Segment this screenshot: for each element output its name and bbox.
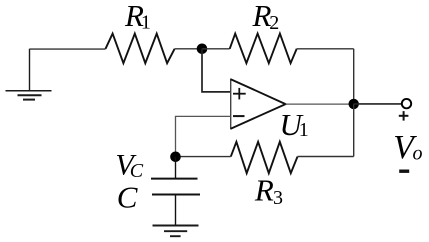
svg-text:1: 1 [141, 12, 151, 34]
capacitor C [151, 157, 200, 226]
wire: R3 left end to node C [176, 156, 231, 158]
svg-text:2: 2 [269, 12, 279, 34]
wire: corner to R3 right end [298, 156, 354, 158]
plus sign at output [399, 111, 409, 121]
output terminal (open circle) [402, 99, 411, 108]
svg-text:1: 1 [299, 119, 309, 141]
svg-text:R: R [254, 173, 274, 208]
wire: node B to output terminal [354, 103, 402, 105]
wire: op-amp output to node B [286, 103, 354, 105]
ground GND2 (below capacitor) [153, 226, 199, 237]
wire: R1 to node A [175, 48, 202, 50]
node B (output junction) [349, 99, 359, 109]
svg-text:o: o [413, 143, 423, 165]
wire: node A down to op-amp non-inverting input [202, 49, 231, 92]
svg-text:3: 3 [273, 187, 283, 209]
op-amp U1 plus input marker [233, 88, 246, 100]
op-amp U1 [230, 79, 232, 130]
wire: top-right corner down to node B [353, 49, 355, 104]
resistor R1 [106, 34, 175, 64]
wire: op-amp inverting input to node C [176, 116, 231, 156]
node C (VC node) [170, 152, 181, 163]
wire: node A to R2 [202, 48, 230, 50]
resistor R3 [231, 142, 298, 173]
op-amp U1 minus input marker [233, 115, 245, 117]
node A (junction R1/R2/op-amp +) [197, 44, 208, 55]
svg-text:C: C [117, 180, 138, 215]
resistor R2 [230, 34, 297, 64]
ground GND1 (left) [6, 49, 52, 100]
wire: left ground to R1 [30, 48, 106, 50]
wire: node B down to R3 level [353, 104, 355, 157]
wire: R2 to top-right corner [297, 48, 354, 50]
minus sign at output [399, 169, 409, 172]
